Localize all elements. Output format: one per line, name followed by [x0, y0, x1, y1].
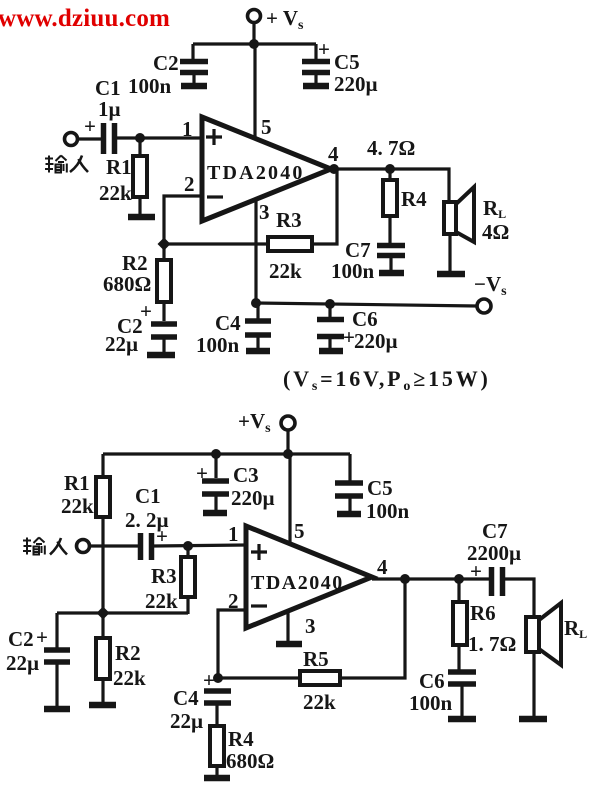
wire C7b to speaker — [505, 579, 534, 617]
svg-text:22k: 22k — [99, 181, 132, 205]
node R4 top — [385, 164, 395, 174]
node C1/R1/pin1 — [135, 133, 145, 143]
node output pin4 — [329, 164, 339, 174]
svg-text:1: 1 — [228, 522, 239, 546]
svg-text:R1: R1 — [64, 471, 90, 495]
wire speaker gnd (2) — [532, 652, 535, 717]
wire feedback R5 — [218, 579, 405, 678]
capacitor C1 1u — [84, 76, 121, 154]
ground (C6b) — [448, 716, 476, 723]
svg-text:2200µ: 2200µ — [467, 541, 521, 565]
ground (R1) — [128, 214, 155, 221]
svg-text:R1: R1 — [106, 155, 132, 179]
capacitor C7b 2200u — [467, 519, 521, 596]
svg-text:680Ω: 680Ω — [226, 749, 274, 773]
svg-text:R4: R4 — [228, 727, 254, 751]
svg-text:+: + — [84, 114, 96, 138]
svg-text:220µ: 220µ — [334, 72, 378, 96]
svg-text:22k: 22k — [61, 494, 94, 518]
svg-text:4Ω: 4Ω — [482, 220, 509, 244]
+Vs rail — [193, 42, 316, 45]
svg-text:C5: C5 — [334, 50, 360, 74]
svg-text:3: 3 — [305, 614, 316, 638]
wire speaker to ground — [448, 234, 451, 272]
wire output (2) — [372, 577, 489, 580]
-Vs rail — [256, 303, 477, 306]
resistor R3b 22k — [145, 546, 195, 614]
svg-text:220µ: 220µ — [354, 329, 398, 353]
node C1b/R3b — [183, 541, 193, 551]
+Vs rail (2) — [103, 452, 350, 455]
svg-text:22k: 22k — [269, 259, 302, 283]
node out/R6 — [454, 574, 464, 584]
svg-text:2: 2 — [184, 172, 195, 196]
svg-text:5: 5 — [294, 519, 305, 543]
wire pin5 — [253, 44, 256, 140]
svg-text:22µ: 22µ — [6, 651, 39, 675]
svg-text:C1: C1 — [135, 484, 161, 508]
wire rail to C2 — [191, 44, 194, 59]
+Vs terminal (2) — [238, 409, 295, 436]
svg-text:C2: C2 — [8, 627, 34, 651]
wire pin2 — [164, 196, 202, 244]
+Vs terminal — [248, 6, 305, 33]
resistor R5 22k — [300, 647, 340, 714]
svg-text:1. 7Ω: 1. 7Ω — [468, 632, 516, 656]
输入 input text (bottom) — [23, 538, 67, 555]
wire C2c drop — [55, 613, 58, 648]
svg-text:100n: 100n — [366, 499, 410, 523]
svg-text:C6: C6 — [352, 307, 378, 331]
node pin2/C4 — [213, 673, 223, 683]
svg-text:C3: C3 — [233, 463, 259, 487]
capacitor C2 100n — [128, 51, 208, 98]
svg-text:4. 7Ω: 4. 7Ω — [367, 136, 415, 160]
svg-text:22k: 22k — [113, 666, 146, 690]
node pin5 (2) — [283, 449, 293, 459]
ground (C3) — [203, 510, 227, 517]
wire +Vs to rail — [252, 23, 255, 44]
wire pin3 (2) — [286, 611, 289, 642]
input terminal — [65, 133, 78, 146]
node C3 — [211, 449, 221, 459]
wire C1 to pin1 — [117, 136, 202, 139]
capacitor C6b 100n — [409, 669, 476, 717]
capacitor C6 220u — [317, 304, 398, 353]
svg-text:R3: R3 — [151, 564, 177, 588]
svg-text:22µ: 22µ — [105, 332, 138, 356]
resistor R2b 22k — [96, 613, 146, 703]
ground (C6) — [319, 348, 343, 355]
op-amp U2 TDA2040 — [246, 526, 372, 628]
node R1b/R2b — [97, 607, 110, 620]
wire input to C1b — [90, 544, 138, 547]
svg-text:1: 1 — [182, 117, 193, 141]
op-amp U1 TDA2040 — [202, 117, 331, 221]
输入 input text (top) — [45, 156, 88, 173]
-Vs terminal — [477, 299, 491, 313]
input terminal (2) — [77, 540, 90, 553]
svg-text:100n: 100n — [128, 74, 172, 98]
capacitor C4b 22u — [170, 668, 231, 733]
svg-text:3: 3 — [259, 200, 270, 224]
node C6 — [325, 299, 335, 309]
node C4 — [251, 298, 261, 308]
resistor R4 — [383, 169, 427, 243]
wire bias row — [57, 611, 188, 614]
svg-text:22µ: 22µ — [170, 709, 203, 733]
ground (pin3) — [276, 641, 302, 648]
ground (C4) — [246, 348, 270, 355]
wire feedback R3 — [164, 170, 337, 244]
node out/R5 — [400, 574, 410, 584]
svg-text:22k: 22k — [303, 690, 336, 714]
svg-text:2. 2µ: 2. 2µ — [125, 508, 169, 532]
svg-text:C4: C4 — [173, 686, 199, 710]
wire rail to C5 — [314, 44, 317, 59]
svg-text:C5: C5 — [367, 476, 393, 500]
svg-text:100n: 100n — [409, 691, 453, 715]
resistor R2 680 — [103, 244, 171, 321]
wire output — [334, 169, 449, 202]
svg-text:C4: C4 — [215, 311, 241, 335]
svg-text:TDA2040: TDA2040 — [207, 162, 305, 184]
resistor R1 22k — [99, 138, 147, 214]
svg-text:+: + — [36, 625, 48, 649]
resistor R1b 22k — [61, 454, 110, 614]
svg-text:www.dziuu.com: www.dziuu.com — [0, 5, 170, 32]
svg-text:4: 4 — [377, 555, 388, 579]
svg-text:R6: R6 — [470, 601, 496, 625]
svg-text:22k: 22k — [145, 589, 178, 613]
svg-text:C6: C6 — [419, 669, 445, 693]
wire +Vs to rail — [286, 430, 289, 455]
capacitor C2b 22u — [105, 299, 177, 356]
svg-text:220µ: 220µ — [231, 486, 275, 510]
ground (C2b) — [147, 352, 175, 359]
wire pin3 to -Vs rail — [254, 200, 257, 303]
capacitor C3 220u — [196, 454, 275, 510]
ground (speaker2) — [519, 716, 547, 723]
svg-text:680Ω: 680Ω — [103, 272, 151, 296]
svg-text:R5: R5 — [303, 647, 329, 671]
ground (C2c) — [44, 706, 70, 713]
capacitor C7 100n — [331, 238, 405, 283]
svg-text:C7: C7 — [482, 519, 508, 543]
svg-text:1µ: 1µ — [98, 97, 121, 121]
ground (C5) — [303, 83, 329, 90]
capacitor C4 100n — [196, 303, 271, 357]
pin5 wire (2) — [288, 454, 291, 545]
svg-text:4: 4 — [328, 142, 339, 166]
capacitor C5b 100n — [335, 454, 410, 523]
node pin2/R2/R3 — [158, 238, 171, 251]
capacitor C1b 2.2u — [125, 484, 169, 560]
capacitor C2c 22u — [6, 625, 70, 707]
resistor R6 1.7 — [453, 579, 516, 670]
ground (C7) — [379, 270, 404, 277]
svg-text:TDA2040: TDA2040 — [251, 572, 344, 594]
ground (speaker) — [437, 271, 465, 278]
speaker RLb — [526, 603, 587, 665]
svg-text:5: 5 — [261, 115, 272, 139]
svg-text:R4: R4 — [401, 187, 427, 211]
wire input to C1 — [78, 137, 101, 140]
node rail/pin5 — [249, 39, 259, 49]
svg-text:C2: C2 — [153, 51, 179, 75]
svg-text:R2: R2 — [115, 641, 141, 665]
svg-text:+: + — [318, 37, 330, 61]
resistor R3 22k — [268, 208, 312, 283]
wire C1b to pin1 — [154, 545, 246, 546]
svg-text:100n: 100n — [196, 333, 240, 357]
resistor R4b 680 — [210, 726, 274, 776]
capacitor C5 220u — [302, 37, 378, 96]
svg-text:100n: 100n — [331, 259, 375, 283]
ground (C5b) — [337, 511, 361, 518]
svg-text:R3: R3 — [276, 208, 302, 232]
ground (R2b) — [89, 702, 116, 709]
wire pin2 (2) — [218, 610, 246, 678]
ground (R4b) — [204, 775, 230, 782]
ground (C2) — [181, 83, 207, 90]
speaker RL 4ohm — [444, 187, 509, 244]
